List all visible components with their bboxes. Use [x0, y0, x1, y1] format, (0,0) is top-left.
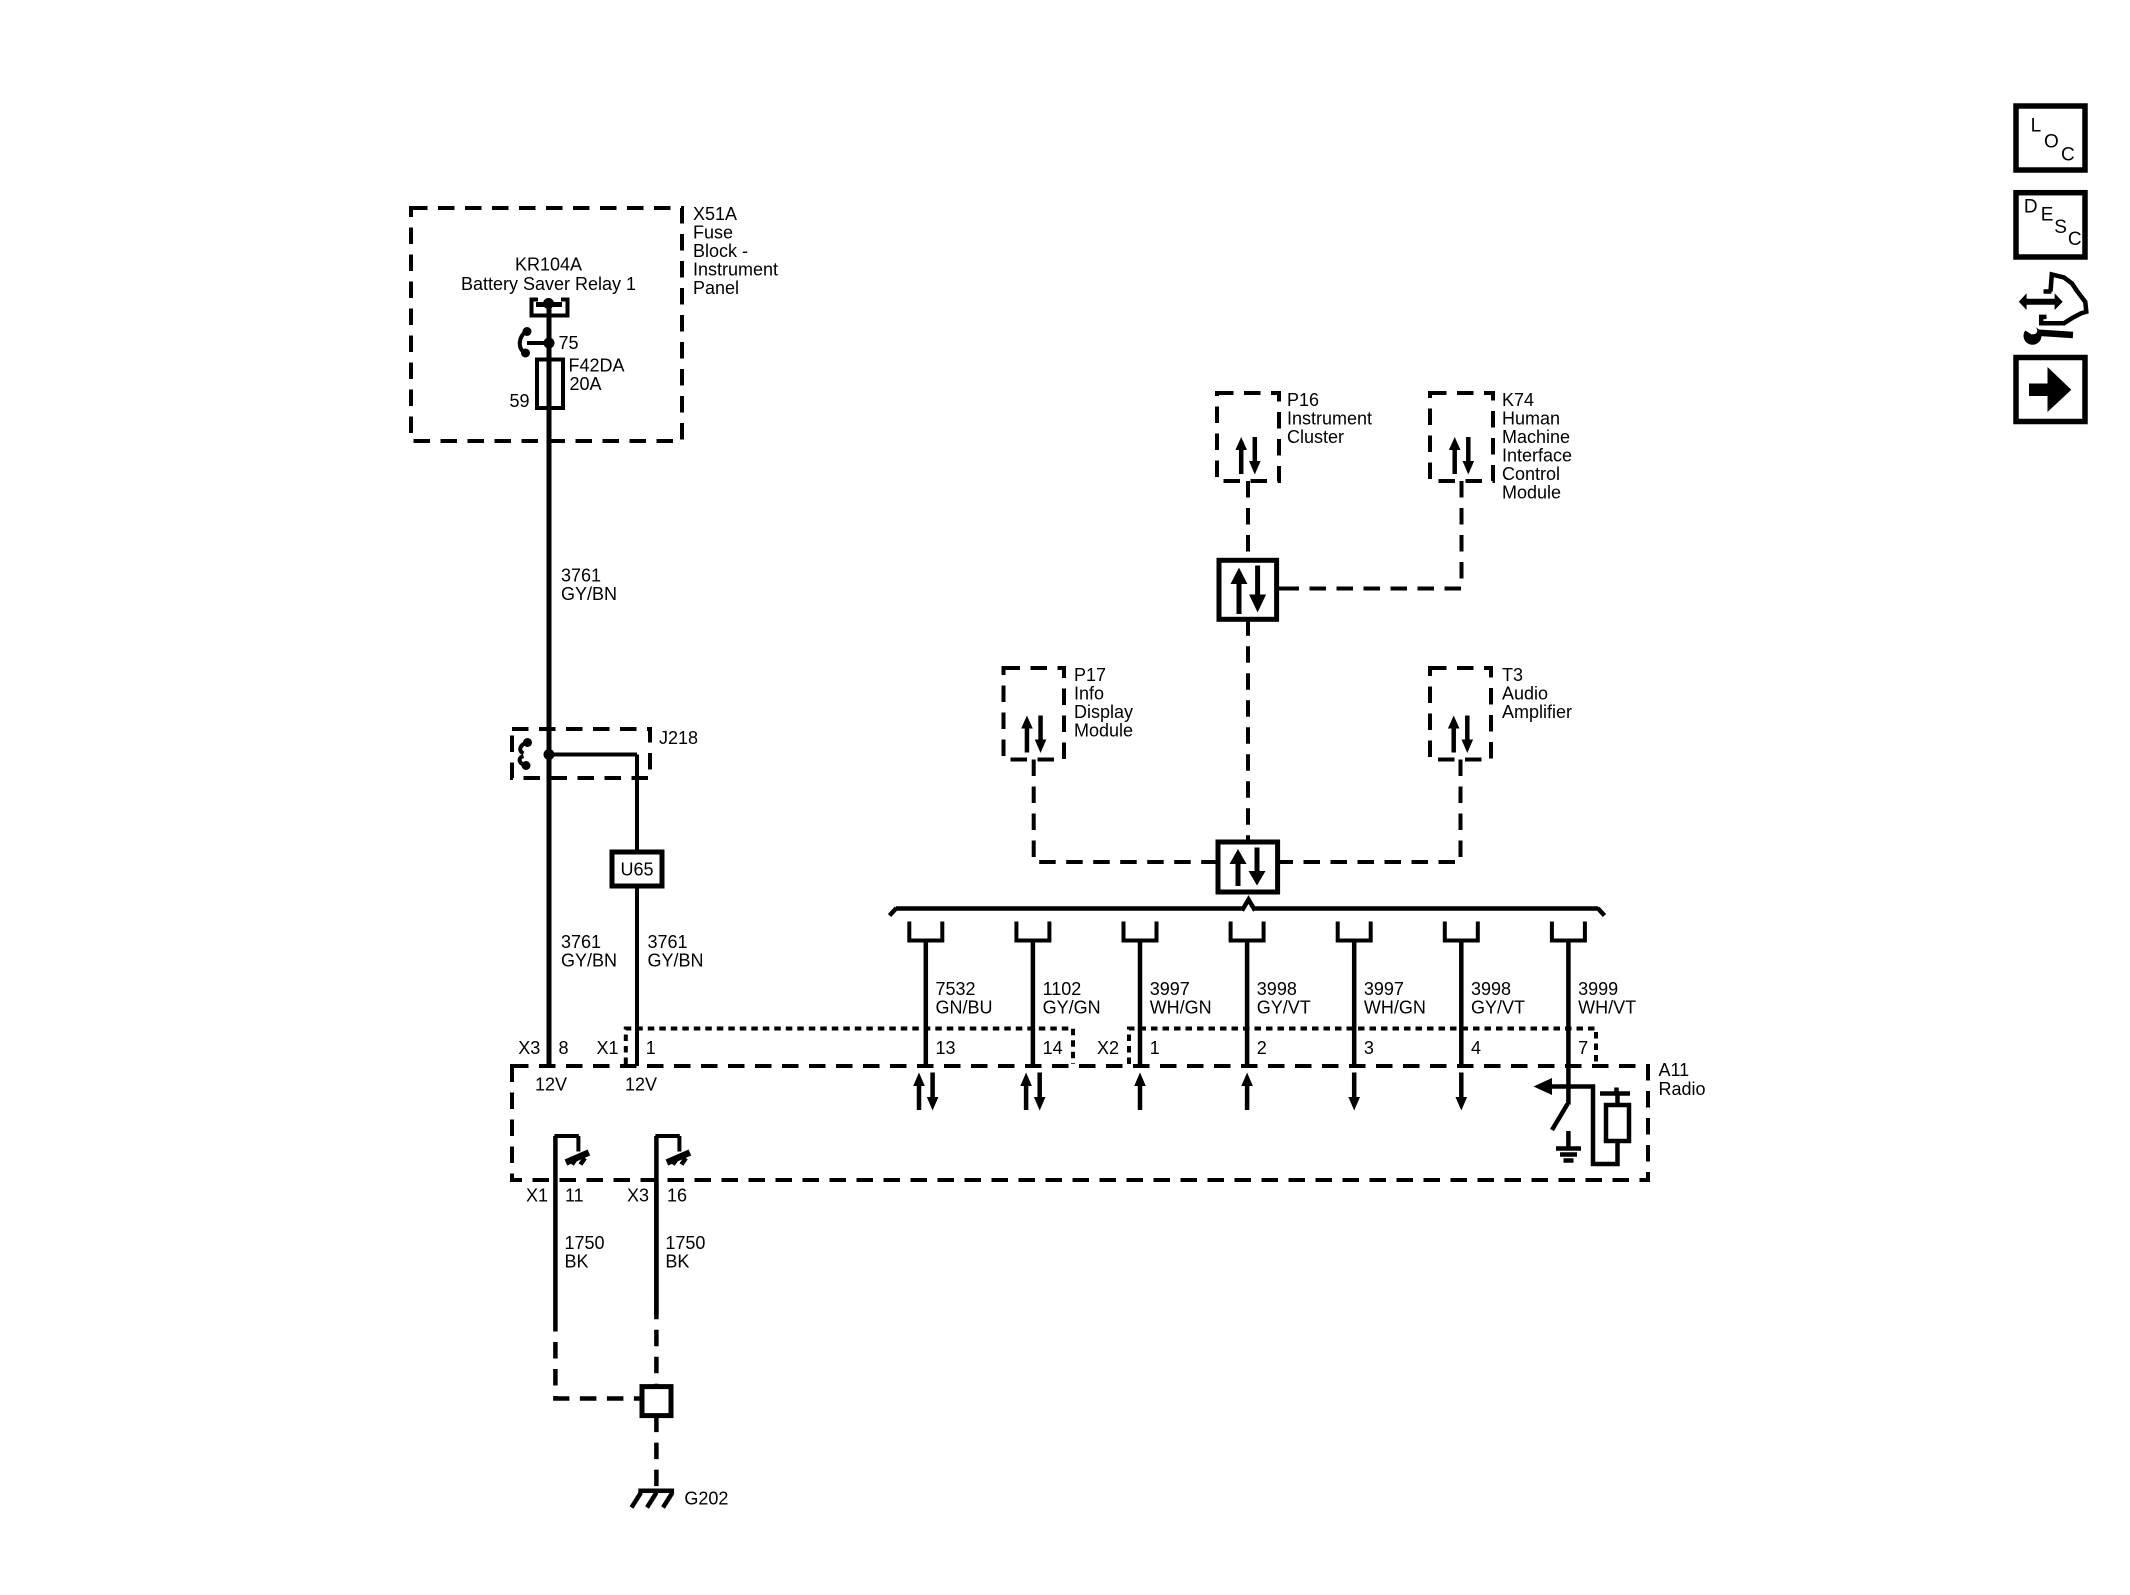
- svg-text:GY/BN: GY/BN: [561, 584, 617, 604]
- svg-text:11: 11: [565, 1186, 584, 1206]
- svg-text:GY/BN: GY/BN: [561, 951, 617, 971]
- svg-text:1: 1: [1150, 1038, 1160, 1058]
- svg-text:A11: A11: [1659, 1060, 1690, 1080]
- svg-text:3999: 3999: [1578, 979, 1618, 999]
- svg-text:X3: X3: [518, 1038, 540, 1058]
- svg-text:Interface: Interface: [1502, 446, 1572, 466]
- svg-text:1750: 1750: [665, 1233, 705, 1253]
- svg-text:Instrument: Instrument: [693, 260, 778, 280]
- svg-text:Radio: Radio: [1659, 1079, 1706, 1099]
- svg-text:12V: 12V: [535, 1075, 567, 1095]
- svg-text:Module: Module: [1502, 483, 1561, 503]
- svg-text:13: 13: [936, 1038, 956, 1058]
- svg-text:GY/GN: GY/GN: [1043, 998, 1101, 1018]
- svg-text:GY/VT: GY/VT: [1257, 998, 1311, 1018]
- svg-text:1750: 1750: [565, 1233, 605, 1253]
- svg-text:BK: BK: [665, 1252, 689, 1272]
- svg-text:12V: 12V: [625, 1075, 657, 1095]
- svg-text:Audio: Audio: [1502, 684, 1548, 704]
- svg-text:3997: 3997: [1150, 979, 1190, 999]
- svg-text:16: 16: [667, 1186, 687, 1206]
- svg-text:Amplifier: Amplifier: [1502, 702, 1572, 722]
- svg-text:U65: U65: [620, 860, 653, 880]
- svg-text:X3: X3: [627, 1186, 649, 1206]
- svg-text:GN/BU: GN/BU: [936, 998, 993, 1018]
- svg-text:20A: 20A: [570, 374, 602, 394]
- svg-text:BK: BK: [565, 1252, 589, 1272]
- svg-text:WH/GN: WH/GN: [1150, 998, 1212, 1018]
- svg-text:X1: X1: [526, 1186, 548, 1206]
- svg-text:KR104A: KR104A: [515, 255, 582, 275]
- svg-text:1102: 1102: [1043, 979, 1082, 999]
- svg-text:D: D: [2024, 197, 2038, 218]
- svg-text:G202: G202: [684, 1489, 728, 1509]
- svg-text:Block -: Block -: [693, 241, 748, 261]
- svg-text:S: S: [2054, 217, 2067, 238]
- svg-text:GY/BN: GY/BN: [648, 951, 704, 971]
- svg-text:X51A: X51A: [693, 204, 737, 224]
- svg-text:3761: 3761: [561, 566, 601, 586]
- svg-text:Display: Display: [1074, 702, 1133, 722]
- svg-text:7: 7: [1578, 1038, 1588, 1058]
- svg-text:3761: 3761: [561, 932, 601, 952]
- svg-text:F42DA: F42DA: [569, 356, 625, 376]
- svg-text:7532: 7532: [936, 979, 976, 999]
- svg-text:T3: T3: [1502, 665, 1523, 685]
- svg-text:Battery Saver Relay 1: Battery Saver Relay 1: [461, 274, 636, 294]
- svg-text:Info: Info: [1074, 684, 1104, 704]
- svg-text:3998: 3998: [1471, 979, 1511, 999]
- svg-text:75: 75: [559, 333, 579, 353]
- svg-text:J218: J218: [659, 728, 698, 748]
- svg-text:O: O: [2044, 132, 2059, 153]
- svg-text:Control: Control: [1502, 464, 1560, 484]
- svg-text:K74: K74: [1502, 390, 1534, 410]
- svg-text:Instrument: Instrument: [1287, 409, 1372, 429]
- svg-text:C: C: [2068, 229, 2082, 250]
- svg-text:3: 3: [1364, 1038, 1374, 1058]
- svg-text:4: 4: [1471, 1038, 1481, 1058]
- svg-text:GY/VT: GY/VT: [1471, 998, 1525, 1018]
- svg-text:3998: 3998: [1257, 979, 1297, 999]
- svg-text:3761: 3761: [648, 932, 688, 952]
- svg-text:L: L: [2031, 116, 2042, 137]
- svg-text:X2: X2: [1097, 1038, 1119, 1058]
- svg-text:Human: Human: [1502, 409, 1560, 429]
- svg-text:Cluster: Cluster: [1287, 427, 1344, 447]
- svg-text:2: 2: [1257, 1038, 1267, 1058]
- svg-text:8: 8: [559, 1038, 569, 1058]
- svg-text:59: 59: [509, 391, 529, 411]
- svg-text:Module: Module: [1074, 721, 1133, 741]
- svg-text:14: 14: [1043, 1038, 1063, 1058]
- svg-text:WH/GN: WH/GN: [1364, 998, 1426, 1018]
- svg-text:3997: 3997: [1364, 979, 1404, 999]
- svg-text:X1: X1: [597, 1038, 619, 1058]
- svg-text:WH/VT: WH/VT: [1578, 998, 1636, 1018]
- svg-text:C: C: [2061, 145, 2075, 166]
- svg-text:E: E: [2041, 205, 2054, 226]
- svg-text:Fuse: Fuse: [693, 223, 733, 243]
- svg-text:P16: P16: [1287, 390, 1319, 410]
- svg-text:1: 1: [646, 1038, 656, 1058]
- svg-text:P17: P17: [1074, 665, 1106, 685]
- svg-text:Machine: Machine: [1502, 427, 1570, 447]
- svg-text:Panel: Panel: [693, 278, 739, 298]
